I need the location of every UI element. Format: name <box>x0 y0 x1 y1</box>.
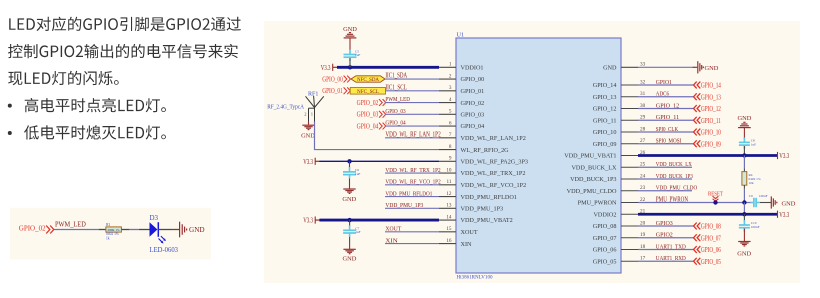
svg-text:1uF: 1uF <box>355 53 360 57</box>
port GPIO_06 chevrons <box>694 246 701 253</box>
capacitor C6 <box>343 167 356 178</box>
wire pin 31 to port GPIO_13 <box>638 96 694 98</box>
wire V3.3 bus to pin 14 <box>319 219 439 222</box>
svg-text:12: 12 <box>446 191 452 197</box>
svg-text:1uF: 1uF <box>355 230 360 234</box>
svg-text:VDDIO2: VDDIO2 <box>593 211 616 218</box>
svg-text:1: 1 <box>449 62 452 68</box>
gnd lead (pin 33) <box>693 66 698 68</box>
R3 right lead <box>121 229 129 231</box>
svg-text:GPIO_04: GPIO_04 <box>357 122 379 130</box>
svg-text:GPIO_04: GPIO_04 <box>461 123 485 130</box>
svg-text:8: 8 <box>449 144 452 150</box>
wire C7 to gnd <box>349 245 351 249</box>
wire VDD_PMU_CLDO pin 23 <box>638 190 692 192</box>
wire pin 17 to port GPIO_05 <box>638 260 694 262</box>
port GPIO_13 chevrons <box>694 93 701 100</box>
svg-text:V3.3: V3.3 <box>303 218 313 225</box>
U1 pin 30 (GPIO_12) stub <box>593 103 646 113</box>
D3 anode lead <box>139 229 150 231</box>
wire gnd to C5 <box>349 38 351 50</box>
wire C6 to gnd <box>349 185 351 189</box>
svg-text:GND: GND <box>189 226 205 234</box>
U1 pin 16 (XIN) stub <box>439 238 472 248</box>
R4 value labels <box>749 173 761 185</box>
wire V3.3 bus pin 26 <box>638 154 778 157</box>
U1 pin 32 (GPIO_14) stub <box>593 79 646 89</box>
svg-text:NFC_SDA: NFC_SDA <box>357 77 379 83</box>
svg-text:GPIO_05: GPIO_05 <box>593 258 617 265</box>
wire lead C5 top <box>349 50 351 53</box>
wire junction to C7 <box>349 220 351 227</box>
bullet dot 2 <box>8 131 12 135</box>
port GPIO_05 chevrons <box>694 258 701 265</box>
svg-text:GPIO_02: GPIO_02 <box>461 100 485 107</box>
wire C5 bottom to bus <box>349 58 351 67</box>
svg-text:100nF: 100nF <box>759 194 768 198</box>
U1 pin 18 (GPIO_06) stub <box>593 244 646 254</box>
wire PMU_PWRON net to pin21 bus <box>743 203 745 215</box>
port GPIO_12 chevrons <box>694 105 701 112</box>
svg-text:GPIO_11: GPIO_11 <box>701 117 721 125</box>
power flag V3.3 (pin 9) <box>303 158 319 166</box>
resistor R4 <box>742 172 747 186</box>
svg-text:GND: GND <box>782 201 796 208</box>
svg-text:GPIO_00: GPIO_00 <box>461 76 485 83</box>
U1 pin 20 (GPIO_08) stub <box>593 220 646 230</box>
svg-text:V3.3: V3.3 <box>779 212 789 219</box>
svg-text:VDD_WL_RF_PA2G_3P3: VDD_WL_RF_PA2G_3P3 <box>461 159 529 166</box>
svg-text:Hi3861RNLV100: Hi3861RNLV100 <box>457 274 493 280</box>
svg-text:13: 13 <box>446 203 452 209</box>
wire V3.3 bus to pin 1 <box>337 66 439 69</box>
svg-text:GPIO_02: GPIO_02 <box>19 224 46 233</box>
svg-text:15: 15 <box>446 226 452 232</box>
svg-text:D3: D3 <box>150 214 159 222</box>
svg-text:4: 4 <box>449 97 452 103</box>
svg-text:1uF: 1uF <box>751 142 756 146</box>
ground (above C5) <box>344 33 357 38</box>
svg-text:0402 1%: 0402 1% <box>106 232 119 236</box>
svg-text:LED-0603: LED-0603 <box>150 246 179 254</box>
svg-text:V3.3: V3.3 <box>779 153 789 160</box>
svg-text:10k: 10k <box>749 181 754 185</box>
svg-text:7: 7 <box>449 132 452 138</box>
svg-text:VDD_PMU_RFLDO1: VDD_PMU_RFLDO1 <box>461 194 517 201</box>
svg-text:PWM_LED: PWM_LED <box>55 221 86 228</box>
svg-text:GPIO_07: GPIO_07 <box>593 235 617 242</box>
wire GPIO_03 to pin 5 <box>385 113 439 115</box>
wire gnd to C8 <box>743 128 745 137</box>
U1 pin 21 (VDDIO2) stub <box>593 209 645 219</box>
wire pin 30 to port GPIO_12 <box>638 108 694 110</box>
svg-text:VDD_PMU_CLDO: VDD_PMU_CLDO <box>567 188 617 195</box>
schematic panel background <box>264 21 800 283</box>
svg-text:GND: GND <box>737 115 751 122</box>
U1 pin 15 (XOUT) stub <box>439 226 478 236</box>
svg-text:WL_RF_RFIO_2G: WL_RF_RFIO_2G <box>461 147 510 154</box>
svg-text:GPIO_05: GPIO_05 <box>701 258 721 266</box>
svg-text:GPIO_14: GPIO_14 <box>701 82 721 90</box>
U1 pin 9 (VDD_WL_RF_PA2G_3P3) stub <box>439 156 528 166</box>
U1 pin 19 (GPIO_07) stub <box>593 232 646 242</box>
svg-text:XIN: XIN <box>461 241 473 248</box>
svg-text:PMU_PWRON: PMU_PWRON <box>578 200 617 207</box>
U1 pin 13 (VDD_PMU_1P3) stub <box>439 203 503 213</box>
U1 pin 6 (GPIO_04) stub <box>439 121 484 131</box>
svg-text:VDD_BUCK_1P3: VDD_BUCK_1P3 <box>570 176 616 183</box>
svg-text:GPIO_13: GPIO_13 <box>701 93 721 101</box>
capacitor C9 <box>750 198 759 207</box>
resistor R3 <box>106 227 122 232</box>
svg-text:3: 3 <box>449 85 452 91</box>
wire GPIO_04 to pin 6 <box>385 125 439 127</box>
wire pin 19 to port GPIO_07 <box>638 237 694 239</box>
svg-text:GPIO_00: GPIO_00 <box>322 76 343 84</box>
svg-text:GPIO_03: GPIO_03 <box>461 112 485 119</box>
wire VDD_WL_RF_TRX_1P2 to pin 10 <box>385 172 439 174</box>
lead C8 top <box>743 137 745 139</box>
ground (C9) <box>771 196 777 208</box>
U1 pin 10 (VDD_WL_RF_TRX_1P2) stub <box>439 168 525 178</box>
ground (C6) <box>343 189 355 193</box>
ground (antenna) <box>302 125 314 129</box>
svg-text:V3.3: V3.3 <box>321 65 331 72</box>
capacitor C5 <box>344 50 357 61</box>
U1 pin 25 (VDD_BUCK_LX) stub <box>571 162 645 172</box>
capacitor C7 <box>343 225 356 236</box>
port GPIO_08 chevrons <box>694 223 701 230</box>
svg-text:R3: R3 <box>106 223 110 227</box>
U1 pin 3 (GPIO_01) stub <box>439 85 484 95</box>
port GPIO_14 chevrons <box>694 82 701 89</box>
junction chain on PMU_PWRON <box>742 200 746 204</box>
svg-text:GND: GND <box>705 65 719 72</box>
svg-text:GPIO_07: GPIO_07 <box>701 234 721 242</box>
svg-text:GND: GND <box>342 196 356 203</box>
U1 pin 29 (GPIO_11) stub <box>593 115 646 125</box>
wire bus to R4 <box>743 156 745 169</box>
svg-text:VDD_BUCK_LX: VDD_BUCK_LX <box>571 164 617 171</box>
svg-text:VDDIO1: VDDIO1 <box>461 65 484 72</box>
svg-text:GPIO_12: GPIO_12 <box>593 106 617 113</box>
wire pin 20 to port GPIO_08 <box>638 225 694 227</box>
port GPIO_10 chevrons <box>694 129 701 136</box>
svg-text:100nF: 100nF <box>751 225 760 229</box>
U1 pin 5 (GPIO_03) stub <box>439 109 484 119</box>
svg-text:U1: U1 <box>457 31 465 38</box>
bullet dot 1 <box>8 104 12 108</box>
svg-text:1k: 1k <box>106 236 110 240</box>
ground (C10) <box>738 242 750 246</box>
wire VDD_BUCK_LX pin 25 <box>638 166 692 168</box>
svg-text:GPIO_06: GPIO_06 <box>701 246 721 254</box>
wire pin 18 to port GPIO_06 <box>638 249 694 251</box>
svg-text:10: 10 <box>446 168 452 174</box>
wire pin 32 to port GPIO_14 <box>638 84 694 86</box>
svg-text:GND: GND <box>737 250 751 257</box>
junction on pin 14 bus at C7 <box>347 218 351 222</box>
svg-text:9: 9 <box>449 156 452 162</box>
port GPIO_09 chevrons <box>694 140 701 147</box>
svg-text:GPIO_02: GPIO_02 <box>357 99 379 107</box>
ground (LED circuit) <box>180 222 187 238</box>
wire pin 29 to port GPIO_11 <box>638 119 694 121</box>
U1 pin 31 (GPIO_13) stub <box>593 91 646 101</box>
U1 pin 7 (VDD_WL_RF_LAN_1P2) stub <box>439 132 526 142</box>
svg-text:5: 5 <box>449 109 452 115</box>
U1 pin 12 (VDD_PMU_RFLDO1) stub <box>439 191 517 201</box>
ground (pin 33) <box>698 61 704 73</box>
wire junction to C6 <box>349 161 351 169</box>
U1 pin 22 (PMU_PWRON) stub <box>578 197 646 207</box>
U1 pin 33 (GND) stub <box>603 62 646 72</box>
net flag NFC_SDA <box>351 76 385 83</box>
wire IIC1_SCL to pin 3 <box>385 90 439 92</box>
wire antenna pin2 to gnd <box>308 121 310 125</box>
svg-text:16: 16 <box>446 238 452 244</box>
C7 bottom lead <box>349 237 351 245</box>
U1 pin 17 (GPIO_05) stub <box>593 256 646 266</box>
power flag V3.3 (pin 1) <box>321 64 337 72</box>
wire GPIO_02 to R3 <box>54 229 99 231</box>
svg-text:GND: GND <box>342 256 356 263</box>
R4 bottom lead <box>743 185 745 189</box>
wire VDD_BUCK_1P3 pin 24 <box>638 178 692 180</box>
svg-text:GPIO_12: GPIO_12 <box>701 105 721 113</box>
capacitor C10 <box>739 220 750 231</box>
LED sub-circuit panel background <box>10 208 211 260</box>
wire pin 27 to port GPIO_09 <box>638 143 694 145</box>
U1 pin 4 (GPIO_02) stub <box>439 97 484 107</box>
junction on pin 9 net at C6 <box>347 159 351 163</box>
port RESET chevrons <box>713 196 719 201</box>
svg-text:NFC_SCL: NFC_SCL <box>357 89 379 95</box>
U1 pin 26 (VDD_PMU_VBAT1) stub <box>564 150 645 160</box>
port GPIO_04 chevrons <box>379 123 386 130</box>
junction pin21 bus / chain <box>742 212 746 216</box>
port GPIO_03 chevrons <box>379 111 386 118</box>
svg-text:V3.3: V3.3 <box>303 159 313 166</box>
wire VDD_PMU_RFLDO1 to pin 12 <box>385 196 439 198</box>
wire pin 33 to gnd <box>638 66 694 68</box>
wire antenna pin1 to pin 8 <box>315 122 440 150</box>
svg-text:14: 14 <box>446 215 452 221</box>
wire VDD_WL_RF_VCO_1P2 to pin 11 <box>385 184 439 186</box>
port GPIO_02 chevrons (LED circuit) <box>46 226 54 234</box>
gnd lead (LED) <box>173 229 179 231</box>
svg-text:RF1: RF1 <box>308 92 318 98</box>
D3 cathode lead <box>158 229 173 231</box>
capacitor C8 <box>739 138 750 149</box>
R4 top lead <box>743 168 745 171</box>
U1 pin 28 (GPIO_10) stub <box>593 126 646 136</box>
port GPIO_11 chevrons <box>694 117 701 124</box>
svg-text:RESET: RESET <box>708 190 723 197</box>
svg-text:VDD_PMU_1P3: VDD_PMU_1P3 <box>461 206 504 213</box>
ground (right chain top) <box>738 122 751 127</box>
svg-text:VDD_PMU_VBAT2: VDD_PMU_VBAT2 <box>461 217 513 224</box>
IC U1 Hi3861 body <box>456 38 621 273</box>
port GPIO_02 chevrons <box>379 99 386 106</box>
power flag V3.3 (pin 26) <box>778 152 790 160</box>
junction on V3.3 bus at C5 <box>348 65 352 69</box>
wire XOUT to pin 15 <box>385 231 439 233</box>
wire pin 28 to port GPIO_10 <box>638 131 694 133</box>
antenna RF1 <box>304 96 324 122</box>
svg-text:11: 11 <box>447 179 452 185</box>
svg-text:GPIO_09: GPIO_09 <box>701 140 721 148</box>
wire VDD_WL_RF_LAN_1P2 to pin 7 <box>385 137 439 139</box>
R3 left lead <box>99 229 106 231</box>
svg-text:2: 2 <box>449 74 452 80</box>
svg-text:GPIO_11: GPIO_11 <box>593 118 617 125</box>
svg-text:GND: GND <box>603 65 617 72</box>
svg-text:VDD_PMU_VBAT1: VDD_PMU_VBAT1 <box>564 153 616 160</box>
U1 pin 1 (VDDIO1) stub <box>439 62 484 72</box>
wire C8 bottom to bus <box>743 146 745 156</box>
svg-text:GPIO_14: GPIO_14 <box>593 82 617 89</box>
svg-text:XOUT: XOUT <box>461 229 478 236</box>
svg-text:GPIO_09: GPIO_09 <box>593 141 617 148</box>
svg-text:GPIO_06: GPIO_06 <box>593 247 617 254</box>
svg-text:GND: GND <box>301 133 315 140</box>
U1 pin 11 (VDD_WL_RF_VCO_1P2) stub <box>439 179 526 189</box>
svg-text:GPIO_10: GPIO_10 <box>593 129 617 136</box>
wire R3 to D3 <box>129 229 138 231</box>
svg-text:GPIO_03: GPIO_03 <box>357 111 379 119</box>
wire PMU_PWRON <box>638 202 751 204</box>
wire R4 to pin22 net <box>743 189 745 203</box>
svg-text:6: 6 <box>449 121 452 127</box>
svg-text:1uF: 1uF <box>355 172 360 176</box>
U1 pin 2 (GPIO_00) stub <box>439 74 484 84</box>
wire bus to C10 <box>743 214 745 222</box>
U1 pin 24 (VDD_BUCK_1P3) stub <box>570 173 646 183</box>
port GPIO_01 chevrons <box>344 87 351 94</box>
svg-text:VDD_WL_RF_VCO_1P2: VDD_WL_RF_VCO_1P2 <box>461 182 527 189</box>
power flag V3.3 (pin 14) <box>303 216 319 224</box>
descriptive Chinese text <box>8 17 241 140</box>
ground (C7) <box>343 249 355 253</box>
wire V3.3 bus pin 21 <box>638 213 778 216</box>
svg-text:VDD_WL_RF_TRX_1P2: VDD_WL_RF_TRX_1P2 <box>461 170 526 177</box>
svg-text:VDD_WL_RF_LAN_1P2: VDD_WL_RF_LAN_1P2 <box>461 135 526 142</box>
junction pin26 bus / chain <box>742 153 746 157</box>
power flag V3.3 (pin 21) <box>778 211 790 219</box>
svg-text:GPIO_13: GPIO_13 <box>593 94 617 101</box>
U1 pin 27 (GPIO_09) stub <box>593 138 646 148</box>
junction RESET on PMU_PWRON <box>713 200 717 204</box>
svg-text:GPIO_01: GPIO_01 <box>461 88 485 95</box>
U1 pin 14 (VDD_PMU_VBAT2) stub <box>439 215 513 225</box>
C6 bottom lead <box>349 178 351 185</box>
U1 pin 23 (VDD_PMU_CLDO) stub <box>567 185 646 195</box>
net flag NFC_SCL <box>350 88 385 95</box>
LED D3 <box>150 222 166 243</box>
svg-text:GPIO_01: GPIO_01 <box>322 87 343 95</box>
R3 labels <box>106 223 119 240</box>
svg-text:RF_2.4G_TypcA: RF_2.4G_TypcA <box>267 104 304 111</box>
svg-text:GPIO_08: GPIO_08 <box>593 223 617 230</box>
svg-text:C9: C9 <box>749 194 753 198</box>
wire V3.3 to pin 9 <box>319 160 439 162</box>
wire PWM_LED to pin 4 <box>385 102 439 104</box>
wire C9 to gnd <box>760 202 771 204</box>
svg-text:GPIO_08: GPIO_08 <box>701 223 721 231</box>
wire IIC1_SDA to pin 2 <box>385 78 439 80</box>
wire VDD_PMU_1P3 to pin 13 <box>385 207 439 209</box>
port GPIO_00 chevrons <box>344 76 351 83</box>
svg-text:GPIO_10: GPIO_10 <box>701 129 721 137</box>
wire XIN to pin 16 <box>385 243 439 245</box>
port GPIO_07 chevrons <box>694 234 701 241</box>
U1 pin 8 (WL_RF_RFIO_2G) stub <box>439 144 509 154</box>
wire C10 to gnd <box>743 229 745 242</box>
